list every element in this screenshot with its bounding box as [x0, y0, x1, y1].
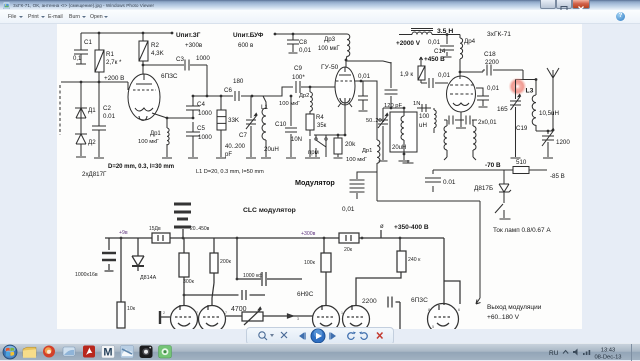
wire modulator +300 rail: [105, 237, 444, 239]
capacitor C18 2200: [487, 65, 491, 76]
show desktop sliver: [631, 344, 633, 361]
inductor L1 20uH: [262, 108, 266, 140]
antenna W1: [547, 68, 559, 95]
ground under 0,01: [359, 110, 368, 112]
node junction: [142, 32, 145, 35]
svg-text:C2: C2: [103, 105, 111, 112]
fuse box 20к: [339, 233, 359, 243]
node junction: [390, 107, 393, 110]
svg-text:uH: uH: [419, 122, 427, 129]
ground floating: [403, 162, 414, 164]
node junction: [309, 86, 312, 89]
node junction: [399, 237, 402, 240]
wire gnd stem: [407, 160, 409, 163]
svg-text:+350-400 В: +350-400 В: [394, 224, 429, 231]
resistor 200к: [210, 253, 218, 273]
resistor 510: [513, 167, 529, 174]
svg-text:180: 180: [233, 78, 244, 85]
vacuum tube V4 6Н9С: [171, 306, 198, 333]
svg-text:1000х16в: 1000х16в: [75, 272, 98, 278]
wire Д814А leads: [137, 238, 139, 271]
arrow junction: [288, 314, 294, 318]
wire left drop: [120, 238, 122, 302]
wire 100uH bottom lead: [433, 128, 435, 133]
svg-text:100 мкГ: 100 мкГ: [138, 139, 160, 145]
wire Др4 leads: [459, 35, 461, 73]
taskbar M icon: [102, 346, 115, 359]
taskbar folder icon: [23, 347, 36, 358]
ground under jack: [500, 218, 511, 220]
svg-text:300к: 300к: [183, 279, 195, 285]
node junction: [446, 33, 449, 36]
node junction: [220, 95, 223, 98]
wire Др3 to anode: [346, 56, 347, 68]
svg-text:L3: L3: [526, 88, 534, 95]
wire stack stem: [182, 229, 184, 238]
wire cathode wire: [152, 113, 167, 157]
cursor highlight (red glow): [509, 78, 527, 96]
wire switch leads: [316, 135, 326, 138]
wire 100к leads: [324, 238, 326, 305]
wire bar link: [160, 316, 170, 318]
svg-text:Uпит.ЗГ: Uпит.ЗГ: [176, 32, 201, 39]
wire grid line to modulator rail: [376, 163, 378, 201]
wire zener lead: [503, 170, 505, 184]
svg-text:6: 6: [458, 308, 460, 312]
node junction: [290, 95, 293, 98]
delete button: [377, 333, 383, 339]
resistor 240 к: [397, 251, 406, 272]
svg-text:D=20 mm, 0.3, l=30 mm: D=20 mm, 0.3, l=30 mm: [108, 164, 174, 170]
ground under 165: [511, 157, 521, 159]
vacuum tube V6: [313, 306, 340, 333]
svg-text:0,1: 0,1: [73, 56, 82, 62]
wire link tubes: [226, 315, 313, 317]
capacitor C4: [186, 106, 200, 110]
svg-text:8: 8: [428, 308, 430, 312]
wire C2 leads: [98, 82, 100, 157]
resistor R2: [139, 41, 148, 61]
node junction: [360, 80, 363, 83]
vacuum tube V3 ГК-71: [447, 76, 476, 112]
zener diode Д814А: [132, 256, 144, 266]
switch прм: [316, 140, 326, 157]
ground at C1: [76, 63, 86, 65]
rotate ccw button: [348, 333, 354, 340]
taskbar mail icon: [63, 347, 75, 356]
svg-text:1N: 1N: [413, 101, 420, 107]
svg-text:L1: L1: [261, 104, 269, 111]
svg-text:C6: C6: [224, 87, 232, 94]
tray speaker: [573, 349, 578, 356]
svg-text:L1 D=20, 0.3 mm, l=50 mm: L1 D=20, 0.3 mm, l=50 mm: [196, 169, 264, 175]
inductor 20uH screened: [401, 116, 404, 140]
capacitor C3: [185, 60, 189, 71]
svg-text:2: 2: [163, 311, 165, 315]
wire modulator rail: [377, 200, 480, 202]
ground under 1200: [543, 157, 553, 159]
wire filament leads: [447, 120, 473, 157]
svg-text:7: 7: [225, 311, 227, 315]
wire tank top wire: [516, 70, 537, 80]
ground under C7: [246, 157, 256, 159]
wire 165 leads: [515, 80, 517, 158]
variable capacitor 50..200: [378, 120, 388, 124]
svg-text:+200 В: +200 В: [104, 75, 124, 82]
resistor 300к: [179, 253, 189, 277]
svg-text:-85 В: -85 В: [550, 173, 565, 180]
taskbar browser icon: [43, 346, 55, 358]
choke 3.5H iron core: [411, 29, 433, 31]
svg-text:Ток ламп 0.8/0.67 А: Ток ламп 0.8/0.67 А: [493, 227, 551, 234]
inductor L3 10,5uH: [532, 95, 536, 125]
choke Др2 100мкГ: [310, 92, 312, 111]
vacuum tube V5 6Н9С: [199, 306, 226, 333]
svg-text:R2: R2: [151, 42, 159, 49]
capacitor interstage 2: [242, 290, 246, 300]
taskbar green app icon: [159, 346, 172, 359]
svg-text:Др4: Др4: [464, 38, 476, 45]
ground under C5: [188, 157, 198, 159]
variable capacitor 165: [510, 101, 521, 105]
taskbar camera icon: [140, 346, 153, 359]
svg-text:Д817Б: Д817Б: [474, 185, 493, 192]
svg-text:C4: C4: [197, 101, 205, 108]
svg-text:0,01: 0,01: [342, 206, 355, 213]
variable capacitor C7: [246, 120, 256, 124]
ground cathode: [456, 127, 466, 129]
capacitor 1000 кф: [262, 272, 266, 286]
svg-text:C18: C18: [484, 51, 496, 58]
resistor 1,9к: [418, 66, 425, 80]
1200 arrow: [542, 128, 554, 146]
vacuum tube V2 ГУ-50: [335, 67, 355, 105]
tray up arrow: [563, 351, 568, 354]
tray network: [583, 350, 590, 355]
svg-text:прм: прм: [308, 150, 319, 156]
svg-text:510: 510: [516, 159, 527, 166]
svg-text:CLC модулятор: CLC модулятор: [243, 207, 296, 214]
svg-text:3: 3: [297, 317, 299, 321]
wire stub to tube grid: [127, 82, 129, 90]
node junction: [98, 32, 101, 35]
node junction: [459, 71, 462, 74]
wire Rb leads: [212, 238, 214, 305]
choke Др1b: [377, 140, 380, 163]
svg-text:2200: 2200: [485, 59, 499, 66]
svg-text:R1: R1: [106, 51, 114, 58]
wire 240к leads and feed to V7: [356, 238, 401, 305]
svg-text:C8: C8: [299, 39, 307, 46]
svg-text:1000: 1000: [196, 55, 210, 62]
node junction: [292, 33, 295, 36]
svg-text:15Дв: 15Дв: [149, 226, 161, 232]
capacitor C2: [92, 126, 106, 130]
node junction: [236, 237, 239, 240]
node junction: [98, 81, 101, 84]
svg-text:Выход модуляции: Выход модуляции: [487, 304, 542, 311]
choke Др3 100мкГ: [347, 34, 350, 56]
svg-text:C3: C3: [176, 56, 184, 63]
fit to window button: [281, 332, 287, 338]
node junction: [403, 153, 406, 156]
svg-text:0,01: 0,01: [487, 85, 500, 92]
resistor R1: [95, 50, 104, 72]
wire 2200 right lead: [396, 302, 401, 329]
165 arrow: [511, 94, 521, 110]
svg-text:Д2: Д2: [88, 139, 96, 146]
node junction: [251, 95, 254, 98]
capacitor 120 pF: [385, 90, 398, 94]
wire bus to buffer: [193, 95, 263, 97]
svg-text:Uпит.БУФ: Uпит.БУФ: [233, 32, 264, 39]
wire anode to 120pF coupling: [346, 61, 391, 63]
electrolytic capacitor stack: [174, 204, 191, 227]
node junction: [192, 95, 195, 98]
wire C14 leads: [446, 35, 448, 57]
node junction: [80, 81, 83, 84]
svg-text:C5: C5: [197, 125, 205, 132]
wire anode to C18 to tank: [460, 70, 523, 72]
capacitor 0,01 modulator a: [350, 180, 365, 184]
shield box 20uH: [390, 112, 417, 152]
svg-text:C7: C7: [239, 132, 247, 139]
svg-text:Модулятор: Модулятор: [295, 178, 335, 187]
cathode bar: [159, 311, 161, 324]
arrow output: [476, 298, 481, 304]
ground under L1: [261, 157, 271, 159]
svg-text:Др3: Др3: [324, 36, 336, 43]
ground under R4: [305, 157, 315, 159]
50..200 arrow: [378, 113, 388, 128]
svg-text:20k: 20k: [345, 141, 356, 148]
svg-text:0,01: 0,01: [428, 39, 441, 46]
node junction: [183, 294, 186, 297]
resistor R3: [217, 110, 226, 130]
svg-text:-70 В: -70 В: [485, 162, 501, 169]
svg-text:Д814А: Д814А: [140, 275, 157, 281]
svg-text:10к: 10к: [127, 306, 136, 312]
svg-text:40..200: 40..200: [225, 144, 246, 150]
svg-text:35к: 35к: [317, 123, 327, 129]
svg-text:100 мкГ: 100 мкГ: [318, 46, 340, 52]
wire 20uH leads: [403, 108, 405, 160]
node junction: [323, 237, 326, 240]
capacitor C6: [235, 91, 239, 101]
capacitor 0,01 right: [477, 96, 489, 100]
wire 0,01 stub: [357, 172, 377, 199]
svg-text:0.01: 0.01: [103, 113, 116, 120]
next button: [331, 333, 336, 340]
capacitor C1: [74, 50, 88, 54]
svg-text:6ПЗС: 6ПЗС: [161, 73, 178, 80]
svg-text:ГУ-50: ГУ-50: [321, 64, 339, 71]
svg-text:ø: ø: [380, 224, 384, 230]
svg-text:33K: 33K: [228, 117, 240, 124]
filament winding b: [473, 126, 476, 150]
capacitor 2200: [388, 297, 392, 308]
wire wire C3 down to bus: [206, 65, 208, 96]
fuse box: [152, 233, 170, 243]
capacitor C9: [296, 81, 300, 93]
arrow +450V: [419, 57, 422, 60]
svg-text:1,9 к: 1,9 к: [400, 71, 413, 78]
svg-text:3хГК-71: 3хГК-71: [487, 31, 511, 38]
capacitor C10: [285, 128, 297, 132]
wire bias cap leads: [432, 170, 434, 192]
wire wire to Д1: [80, 82, 82, 108]
wire C8 leads: [292, 34, 294, 52]
node junction: [155, 237, 158, 240]
wire 0,01 cap leads: [355, 81, 363, 110]
wire phi stub: [380, 230, 382, 238]
svg-text:10,5uH: 10,5uH: [539, 110, 559, 117]
wire ГУ-50 grid line to modulator: [361, 81, 377, 140]
svg-text:13:43: 13:43: [601, 348, 616, 354]
node junction: [344, 134, 347, 137]
filament lead hooks: [444, 157, 476, 160]
svg-text:200к: 200к: [220, 259, 232, 265]
ground under 50..200: [379, 160, 388, 162]
capacitor 0,01 grid: [429, 78, 433, 88]
svg-text:Др1: Др1: [362, 148, 372, 154]
electrolytic capacitor 1000x16в: [102, 253, 116, 260]
ground under C2: [94, 157, 104, 159]
svg-text:C14: C14: [434, 48, 446, 55]
node node Uпит.ЗГ: [171, 32, 174, 35]
wire 1.9k leads: [420, 57, 422, 83]
wire C10 leads: [290, 96, 292, 157]
ground under C14: [443, 56, 452, 58]
capacitor 1N: [422, 104, 426, 112]
node junction: [345, 59, 348, 62]
svg-text:C19: C19: [516, 125, 528, 132]
choke Др4: [460, 38, 463, 59]
node junction: [120, 237, 123, 240]
svg-text:C10: C10: [275, 121, 287, 128]
svg-text:50..200: 50..200: [366, 118, 385, 124]
svg-text:2хД817Г: 2хД817Г: [82, 171, 107, 178]
zener diode Д817Б: [499, 184, 511, 198]
capacitor 0.01 bias: [425, 178, 441, 182]
wire R1 leads: [98, 33, 100, 82]
svg-text:1: 1: [341, 311, 343, 315]
vacuum tube V1 6П3С: [128, 74, 160, 120]
svg-text:pF: pF: [225, 152, 232, 158]
svg-text:C1: C1: [84, 39, 92, 46]
capacitor 0,01 a: [449, 116, 453, 125]
wire top rail Uпит.ЗГ: [81, 32, 172, 34]
wire 20k leads: [337, 135, 339, 157]
3.5H winding: [412, 32, 432, 35]
rotate cw button: [361, 333, 367, 340]
wire 6П3С anode feed: [444, 238, 460, 305]
svg-text:R4: R4: [316, 115, 324, 121]
svg-text:1200: 1200: [556, 139, 570, 146]
choke Др1 100мкГ: [167, 128, 169, 145]
start orb: [3, 345, 18, 360]
svg-text:M: M: [103, 347, 112, 359]
wire wire anode to C3: [143, 64, 207, 66]
svg-text:100к: 100к: [304, 260, 316, 266]
resistor 100к: [321, 253, 331, 272]
svg-text:6Н9С: 6Н9С: [297, 291, 314, 298]
node junction: [206, 95, 209, 98]
resistor 10к: [117, 302, 125, 328]
wire antenna link: [536, 95, 553, 131]
svg-text:+60..180 V: +60..180 V: [487, 314, 520, 321]
svg-text:C9: C9: [294, 65, 302, 72]
variable capacitor 1200: [542, 136, 554, 140]
pot arrow: [244, 307, 261, 325]
wire Др2/R4 leads: [309, 87, 311, 157]
svg-text:2,7к *: 2,7к *: [106, 59, 122, 66]
svg-text:0.01: 0.01: [443, 179, 456, 186]
node junction: [547, 130, 550, 133]
wire L1 leads: [263, 96, 266, 157]
svg-text:1000: 1000: [198, 110, 212, 117]
svg-text:6П3С: 6П3С: [411, 297, 428, 304]
wire interstage wire: [184, 294, 265, 296]
svg-text:4,3K: 4,3K: [151, 50, 165, 57]
svg-text:7: 7: [196, 311, 198, 315]
capacitor 0,01 b: [466, 116, 470, 125]
ground under Др1: [162, 157, 172, 159]
capacitor C8: [287, 40, 299, 44]
node junction: [337, 134, 340, 137]
magnifier zoom button: [259, 332, 267, 340]
wire 120pF leads: [391, 62, 404, 108]
svg-text:Д1: Д1: [88, 107, 96, 114]
svg-text:100: 100: [419, 113, 430, 120]
wire rail +200V: [61, 81, 128, 83]
node junction: [182, 237, 185, 240]
wire cathode rail: [314, 98, 345, 135]
svg-text:600 в: 600 в: [238, 42, 254, 49]
node junction: [142, 64, 145, 67]
svg-text:+9в: +9в: [119, 230, 128, 236]
wire C4 C5 chain: [192, 96, 194, 157]
svg-text:Др2: Др2: [299, 93, 309, 99]
taskbar photo app icon: [121, 346, 134, 359]
capacitor C5: [186, 132, 200, 136]
wire 3.5H leads: [399, 34, 460, 36]
ground under C10: [286, 157, 296, 159]
ground under прм: [312, 157, 320, 159]
ground right 0,01: [479, 106, 488, 108]
wire wire bus to C9: [252, 87, 293, 96]
node junction: [535, 78, 538, 81]
meter jack switch: [495, 198, 504, 218]
wire rail Uпит.БУФ: [275, 33, 347, 35]
wire 1N wire: [417, 108, 434, 110]
capacitor 0,01 modulator b: [350, 188, 365, 192]
taskbar adobe reader icon: [83, 346, 95, 358]
wire left cap leads: [108, 238, 110, 270]
shield dashed line: [59, 85, 61, 135]
svg-text:165: 165: [497, 106, 508, 113]
wire Ra leads: [183, 238, 185, 305]
svg-text:2200: 2200: [362, 298, 377, 305]
wire C7 leads: [250, 96, 252, 157]
vacuum tube V7: [343, 306, 370, 333]
svg-text:1000: 1000: [198, 134, 212, 141]
svg-text:0,01: 0,01: [299, 47, 312, 54]
wire 1200 leads: [547, 131, 549, 157]
node junction: [236, 278, 239, 281]
wire R3 leads: [220, 96, 222, 157]
svg-text:100 мкГ: 100 мкГ: [346, 157, 368, 163]
